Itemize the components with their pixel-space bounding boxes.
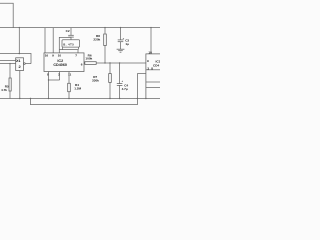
capacitor C4 (119, 63, 121, 84)
svg-text:9: 9 (147, 59, 149, 63)
svg-text:1.2M: 1.2M (74, 86, 81, 90)
svg-text:3: 3 (147, 66, 149, 70)
wire gate pin to ground rail (19, 71, 21, 99)
op-amp gate IC1 NOR body (16, 58, 24, 71)
wire bottom ground rail (0, 98, 160, 100)
ground (117, 48, 125, 50)
IC U2 CD4060 body (44, 53, 84, 72)
svg-text:1µ: 1µ (125, 42, 129, 46)
wire rail to IC3 pin 10 (150, 28, 152, 54)
wire to IC2 pin 7 (77, 50, 79, 53)
svg-text:C2: C2 (66, 29, 70, 33)
wire gate input 1 (0, 60, 16, 62)
wire rail to IC2 pin 9 (52, 28, 54, 53)
svg-text:11: 11 (68, 73, 72, 77)
IC U3 body (146, 54, 160, 99)
svg-text:4.7k: 4.7k (1, 88, 7, 92)
wire IC3 pin to ground (137, 73, 146, 75)
resonator B (62, 40, 80, 47)
wire gate input 2 (0, 63, 16, 65)
svg-text:100k: 100k (85, 57, 92, 61)
wire resonator left leg (62, 47, 64, 50)
gate IC1 output bubble (24, 63, 26, 65)
svg-text:4.7µ: 4.7µ (122, 87, 128, 91)
node A junction (19, 53, 21, 55)
svg-text:B. 4T5: B. 4T5 (63, 43, 74, 47)
wire IC2 pin 3 stub (59, 72, 61, 81)
wire IC2 pin 8 to ground (48, 72, 50, 99)
wire gate output segment (25, 63, 31, 65)
resistor R8 (104, 28, 106, 34)
junction dots (104, 27, 105, 28)
svg-text:CD4060: CD4060 (53, 63, 67, 67)
svg-text:9: 9 (52, 54, 54, 58)
resistor R7 (109, 63, 111, 74)
wire lower return loop (31, 99, 138, 105)
svg-text:330k: 330k (92, 78, 99, 82)
svg-text:6: 6 (81, 63, 83, 67)
svg-text:CD4: CD4 (153, 63, 159, 67)
capacitor C3 (120, 28, 122, 40)
svg-text:7: 7 (75, 54, 77, 58)
IC3 pin row 3 (146, 87, 160, 89)
wire top supply rail (0, 27, 160, 29)
resistor R6 (84, 62, 85, 64)
svg-text:16: 16 (45, 54, 49, 58)
svg-text:≥1: ≥1 (16, 58, 21, 63)
wire oscillator link (59, 49, 78, 51)
wire pin3 to pin8 (49, 79, 60, 81)
wire top-left feed (0, 3, 13, 27)
resistor R4 (68, 72, 70, 84)
wire rail to IC2 pin 16 (44, 28, 46, 53)
wire rail to node A (18, 28, 20, 54)
wire left bus to gate output (0, 54, 31, 64)
wire resonator right leg (77, 47, 79, 50)
wire C2 to IC2 pin 10 (59, 37, 71, 53)
svg-text:220k: 220k (93, 38, 100, 42)
capacitor C2 (70, 28, 72, 36)
resistor R5 (9, 64, 11, 78)
IC3 pin row 1 (146, 69, 160, 71)
svg-text:10: 10 (58, 54, 62, 58)
IC3 pin row 2 (146, 81, 160, 83)
